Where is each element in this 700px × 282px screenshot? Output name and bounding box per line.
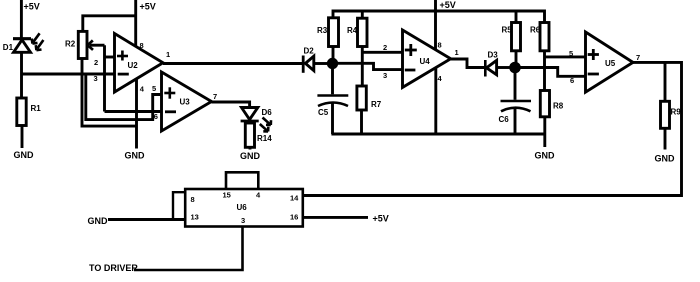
svg-text:14: 14 (290, 194, 299, 203)
svg-text:16: 16 (290, 213, 298, 222)
svg-text:GND: GND (535, 151, 556, 161)
svg-text:GND: GND (125, 151, 146, 161)
svg-text:R3: R3 (317, 26, 328, 35)
svg-text:GND: GND (240, 151, 261, 161)
svg-text:U5: U5 (605, 59, 616, 68)
wire (D1 node to U2 pin 3) (22, 73, 115, 76)
resistor R5 (502, 23, 521, 51)
svg-text:U6: U6 (237, 203, 248, 212)
wire (wiper to U3 pin 6) (105, 110, 162, 113)
wire (R4 to R7) (361, 47, 364, 87)
svg-text:7: 7 (213, 92, 217, 101)
capacitor C6 (499, 101, 532, 124)
wire (331, 104, 334, 135)
capacitor C5 (317, 96, 348, 118)
svg-text:3: 3 (241, 216, 245, 225)
wire (R2 top to +5V rail) (83, 16, 136, 32)
wire (bottom rail) (331, 133, 545, 136)
diode D1 (photodiode) (3, 39, 31, 53)
wire (664, 128, 667, 149)
wire (332, 47, 335, 60)
wire (543, 117, 546, 147)
IC U6 (185, 189, 303, 227)
resistor R9 (661, 101, 682, 128)
svg-text:3: 3 (94, 74, 98, 83)
wire (junction to U5 pin 6) (515, 68, 586, 77)
wire (360, 110, 363, 134)
svg-text:R8: R8 (553, 102, 564, 111)
wire (R5 bottom to junction) (515, 51, 518, 63)
svg-text:U3: U3 (180, 98, 191, 107)
wire (313, 62, 328, 65)
svg-text:13: 13 (191, 213, 199, 222)
svg-text:4: 4 (438, 74, 443, 83)
svg-text:4: 4 (140, 85, 145, 94)
svg-text:C6: C6 (499, 115, 510, 124)
svg-text:2: 2 (94, 58, 98, 67)
wire (U4 out to D3) (451, 59, 484, 68)
wire (bracket pins 15-4) (226, 172, 258, 189)
wire (R6 bottom down to R8) (543, 51, 546, 91)
resistor R7 (357, 86, 382, 110)
resistor R6 (530, 23, 549, 51)
diode D6 (LED) (241, 108, 273, 122)
wire (bracket pins 8-13) (173, 192, 185, 219)
svg-text:R4: R4 (347, 26, 358, 35)
wire (+5V top rail of middle block) (333, 11, 545, 23)
wire (branch to R9) (664, 62, 667, 101)
op-amp U2 (94, 34, 171, 94)
svg-text:6: 6 (570, 76, 574, 85)
svg-text:D3: D3 (488, 51, 499, 60)
resistor R8 (540, 91, 563, 117)
resistor R1 (17, 98, 41, 126)
wire (21, 126, 24, 149)
svg-text:U2: U2 (128, 61, 139, 70)
svg-text:15: 15 (223, 191, 231, 200)
svg-text:R6: R6 (530, 26, 541, 35)
svg-text:5: 5 (569, 49, 573, 58)
svg-text:GND: GND (655, 154, 676, 164)
svg-text:1: 1 (166, 50, 170, 59)
light arrows into D1 (32, 33, 44, 50)
svg-text:GND: GND (88, 216, 109, 226)
svg-text:GND: GND (14, 150, 35, 160)
wire (to U4 pin 2) (362, 51, 402, 54)
wire (20, 52, 23, 98)
svg-text:+5V: +5V (440, 0, 456, 10)
wire (R4 top lead) (361, 11, 364, 18)
svg-text:1: 1 (455, 48, 459, 57)
wire (D1 node tap down right and up to U3 pin 5) (86, 74, 162, 120)
wire (249, 147, 252, 149)
wire (junction down to C5) (331, 64, 334, 95)
wire (junction to U4 pin 3) (333, 63, 403, 69)
svg-text:+5V: +5V (373, 214, 389, 224)
svg-text:R5: R5 (502, 26, 513, 35)
svg-text:D6: D6 (262, 108, 273, 117)
wiper arrow of R2 (88, 40, 105, 50)
wire (R5 top lead) (515, 11, 518, 23)
svg-text:8: 8 (140, 41, 144, 50)
svg-text:U4: U4 (420, 57, 431, 66)
op-amp U4 (383, 30, 459, 87)
node +5V (U2 supply) (136, 0, 156, 47)
diode D2 (303, 47, 314, 73)
wire (497, 66, 510, 69)
resistor R3 (317, 18, 339, 47)
svg-text:7: 7 (636, 53, 640, 62)
wire (to U5 pin 5) (545, 55, 586, 58)
svg-text:6: 6 (154, 112, 158, 121)
potentiometer R2 (65, 31, 87, 58)
op-amp U5 (569, 32, 640, 92)
wire (20, 0, 23, 39)
resistor R14 (245, 123, 272, 147)
node +5V (middle supply) (436, 0, 456, 50)
wire (GND to pin 13) (108, 218, 185, 221)
wire (U5 out right and down to U6 pin 14) (303, 62, 682, 195)
svg-text:3: 3 (383, 71, 387, 80)
wire (U4 pin 4 to bottom rail) (434, 68, 437, 134)
svg-text:5: 5 (152, 84, 156, 93)
wire (wiper down) (103, 45, 106, 111)
wire (514, 108, 517, 134)
diode D3 (485, 51, 498, 77)
svg-text:C5: C5 (318, 108, 329, 117)
node A (junction dot) (327, 58, 338, 69)
svg-text:R2: R2 (65, 40, 76, 49)
wire (U2 pin 4 to ground) (135, 79, 138, 149)
light arrows out of D6 (260, 118, 271, 132)
wire (to U2 pin 2) (105, 56, 115, 59)
wire (junction down to C6) (514, 68, 517, 100)
svg-text:D1: D1 (3, 43, 14, 52)
svg-text:R1: R1 (31, 104, 42, 113)
svg-text:R14: R14 (257, 134, 272, 143)
wire (R2 bottom down and right to U2 gnd stem) (82, 59, 137, 127)
svg-text:D2: D2 (304, 47, 315, 56)
wire (pin 3 down and left to driver) (134, 227, 243, 271)
resistor R4 (347, 18, 367, 46)
wire (U3 out to D6) (212, 102, 250, 108)
node B (junction dot) (509, 62, 521, 74)
svg-text:+5V: +5V (140, 2, 156, 12)
svg-text:8: 8 (438, 41, 442, 50)
svg-text:2: 2 (383, 43, 387, 52)
wire (pin 16 to +5V) (303, 216, 368, 219)
svg-text:R9: R9 (671, 108, 682, 117)
wire (U2 output to D2) (163, 62, 302, 65)
svg-text:8: 8 (191, 195, 195, 204)
svg-text:+5V: +5V (24, 1, 40, 11)
svg-text:TO DRIVER: TO DRIVER (89, 263, 138, 273)
svg-text:R7: R7 (371, 100, 382, 109)
op-amp U3 (152, 72, 217, 131)
